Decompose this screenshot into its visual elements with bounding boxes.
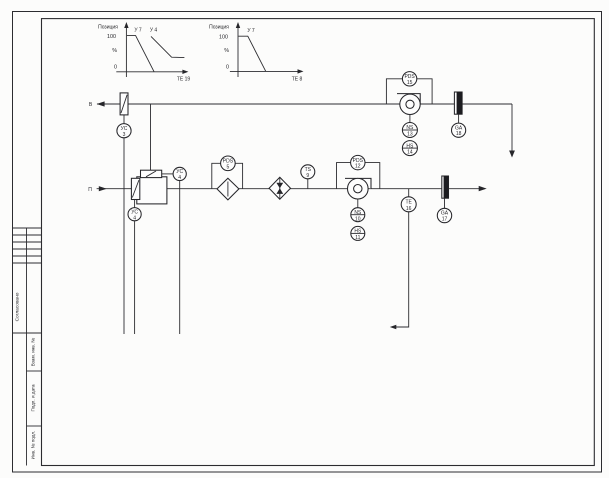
svg-text:3: 3 (123, 132, 126, 138)
supply fan V1 (345, 178, 371, 199)
svg-text:0: 0 (226, 65, 229, 71)
instrument GA18 (452, 123, 466, 137)
graph 2 label Позиция (209, 25, 229, 31)
graph 2 axis label TE 8 (292, 77, 303, 83)
graph 2 label 0 (226, 65, 229, 71)
wire recirculation drop (150, 104, 152, 170)
filter F1 (217, 178, 239, 200)
svg-text:18: 18 (456, 131, 462, 137)
label Инв. № подл. (31, 431, 36, 460)
instrument TS9 (301, 165, 315, 179)
svg-text:13: 13 (407, 132, 413, 138)
node В (exhaust outlet) (89, 102, 93, 108)
svg-text:HS: HS (406, 143, 414, 149)
instrument GA17 (437, 208, 451, 222)
instrument YC3 (117, 124, 131, 138)
svg-text:У 4: У 4 (150, 28, 158, 34)
svg-text:5: 5 (227, 164, 230, 170)
instrument PDS12 impulse lines (337, 163, 380, 189)
air heater K1 (269, 177, 290, 199)
svg-text:%: % (224, 48, 229, 54)
instrument PDS5 impulse lines (212, 163, 243, 188)
instrument NS10 (351, 208, 365, 223)
wire exhaust duct (128, 103, 512, 105)
svg-text:10: 10 (355, 216, 361, 222)
svg-text:17: 17 (442, 217, 448, 223)
svg-text:11: 11 (355, 235, 360, 241)
graph 1 curve У7 (127, 28, 154, 72)
graph 1 curve У4 (150, 28, 185, 58)
supply damper (131, 178, 139, 199)
label Подп. и дата (31, 384, 36, 412)
svg-text:%: % (112, 48, 117, 54)
wire TS9 stem (307, 179, 309, 189)
instrument YC4b (128, 208, 141, 222)
svg-text:15: 15 (407, 80, 413, 86)
supply arrow into room (479, 186, 487, 191)
svg-text:12: 12 (355, 164, 361, 170)
exhaust flow arrow into room (509, 151, 515, 158)
graph 2 axes (230, 22, 304, 77)
graph 1 axis label TE 19 (177, 77, 191, 83)
svg-text:У 7: У 7 (134, 28, 142, 34)
fire damper GA18 (454, 92, 462, 114)
svg-text:100: 100 (219, 35, 228, 41)
instrument PDS12 (351, 155, 365, 169)
svg-text:0: 0 (114, 65, 117, 71)
svg-text:Инв. № подл.: Инв. № подл. (31, 431, 36, 460)
graph 2 label 100 (219, 35, 228, 41)
svg-text:Позиция: Позиция (209, 25, 229, 31)
wire recirc damper to YC4a (162, 173, 173, 175)
instrument PDS5 (221, 156, 236, 171)
svg-text:16: 16 (406, 206, 412, 212)
wire TE16 to П regulator (390, 212, 409, 329)
svg-text:9: 9 (306, 173, 309, 179)
svg-text:Взам. инв. №: Взам. инв. № (31, 338, 36, 367)
exhaust damper (120, 93, 128, 115)
svg-text:NS: NS (354, 210, 362, 216)
left margin divider (26, 228, 28, 466)
wire GA17 stem (444, 198, 446, 208)
svg-text:NS: NS (406, 125, 414, 131)
exhaust outlet arrow (97, 101, 121, 106)
recirculation damper (141, 170, 162, 177)
svg-text:Согласовано: Согласовано (15, 292, 21, 321)
svg-text:4: 4 (133, 215, 136, 221)
wire YC3 stem down (123, 138, 125, 334)
instrument YC4a (173, 167, 186, 181)
instrument PDS15 impulse lines (386, 79, 432, 104)
wire exhaust drop to room (511, 104, 513, 151)
instrument NS13 (402, 123, 417, 138)
svg-text:П: П (88, 187, 92, 193)
node П (supply inlet) (88, 187, 92, 193)
svg-text:TE: TE (406, 200, 413, 206)
svg-text:14: 14 (407, 150, 413, 156)
mixing box (137, 177, 167, 204)
graph 1 label % (112, 48, 117, 54)
wire damper to YC4b (134, 200, 136, 208)
svg-text:ТЕ 19: ТЕ 19 (177, 77, 191, 83)
fire damper GA17 (442, 176, 449, 198)
svg-text:ТЕ 8: ТЕ 8 (292, 77, 303, 83)
wire damper to YC3 (123, 115, 125, 124)
wire fan to NS10 (357, 199, 359, 208)
graph 1 label 100 (107, 34, 116, 40)
svg-text:4: 4 (178, 175, 181, 181)
label Взам. инв. № (31, 338, 36, 367)
left margin box lines (13, 333, 42, 426)
graph 2 label % (224, 48, 229, 54)
wire YC4a stem down (179, 181, 181, 335)
svg-text:У 7: У 7 (247, 28, 255, 34)
graph 2 curve У7 (239, 28, 266, 72)
svg-text:Позиция: Позиция (98, 25, 118, 31)
wire fan to NS13 (409, 115, 411, 123)
wire supply duct (167, 188, 485, 190)
instrument TE16 (401, 197, 416, 212)
svg-text:Подп. и дата: Подп. и дата (31, 384, 36, 412)
wire GA18 stem (458, 114, 460, 123)
instrument PDS15 (402, 72, 416, 86)
svg-text:100: 100 (107, 34, 116, 40)
wire YC4b stem down (134, 221, 136, 334)
supply inlet arrow (97, 186, 132, 191)
graph 1 label 0 (114, 65, 117, 71)
graph 1 label Позиция (98, 25, 118, 31)
graph 1 axes (116, 22, 188, 77)
exhaust fan V2 (397, 94, 420, 115)
label Согласовано (15, 292, 21, 321)
left margin mini table (13, 228, 42, 263)
svg-text:HS: HS (354, 229, 362, 235)
wire TE16 stem top (408, 189, 410, 197)
instrument HS14 (402, 141, 417, 156)
instrument HS11 (351, 226, 365, 241)
